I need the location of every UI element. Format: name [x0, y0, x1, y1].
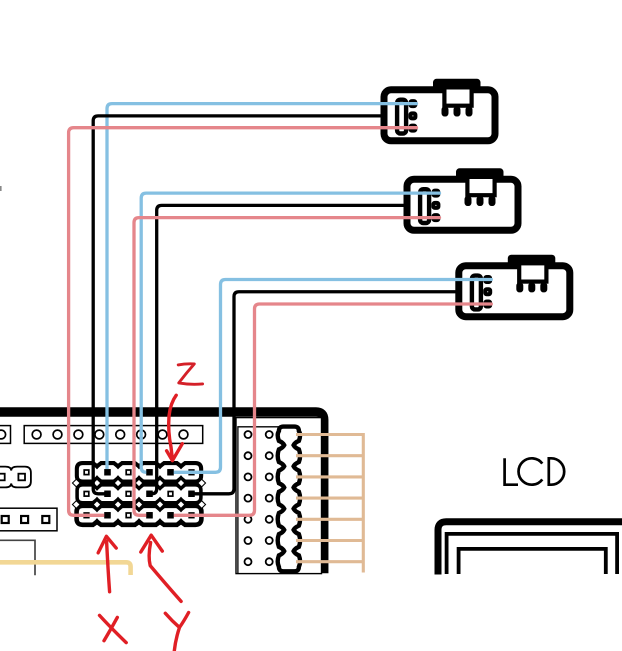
endstop pin header block rows	[77, 463, 201, 524]
annotation letter Y	[165, 613, 188, 651]
wire red SW1 to pin col2 row3	[69, 128, 417, 516]
gray wire outline	[0, 540, 35, 575]
wire end cap Y red end col4 row3	[146, 512, 152, 518]
annotation arrow Y	[141, 535, 181, 601]
wire end cap Z black end col6 row2	[188, 491, 194, 497]
tan wire 5 to LCD bus	[296, 518, 363, 521]
annotation letter Z	[178, 364, 202, 385]
endstop switch SW2 (Y)	[407, 168, 518, 230]
LCD inner frame	[459, 549, 606, 574]
wire black SW3 to pin col6 row2	[192, 292, 460, 494]
header socket strip A	[0, 426, 11, 444]
wire end cap X blue end col2 row1	[104, 469, 110, 475]
tan jumper wires to LCD	[296, 435, 363, 562]
wire end cap Y black end col4 row2	[146, 491, 152, 497]
wire red SW3 to pin col5 row3	[171, 304, 492, 515]
endstop header row 1 (signal)	[77, 463, 201, 481]
resistor network RN1 bead column	[278, 427, 300, 572]
wire blue SW1 to pin col2 row1	[107, 104, 417, 473]
perfboard copper area outline	[238, 427, 281, 574]
tan wire 7 to LCD bus	[296, 560, 363, 563]
stray mark at left edge	[0, 186, 2, 191]
tan wire 6 to LCD bus	[296, 539, 363, 542]
wire black SW1 to pin col2 row2	[93, 116, 384, 494]
wire red SW2 to pin col4 row3	[134, 218, 440, 516]
perfboard outline	[236, 418, 322, 574]
perfboard holes column A	[245, 431, 252, 565]
endstop header row 2 (ground)	[77, 485, 201, 503]
wire end cap X red end col2 row3	[104, 512, 110, 518]
wire black SW2 to pin col4 row2	[150, 205, 408, 493]
tan wire 3 to LCD bus	[296, 475, 363, 478]
wire end cap Z red end col5 row3	[167, 512, 173, 518]
tan wire 4 to LCD bus	[296, 497, 363, 500]
tan bus vertical	[362, 433, 365, 573]
header socket strip B	[24, 426, 203, 444]
endstop switch SW3 (Z)	[459, 255, 570, 317]
wire end cap X black end col2 row2	[104, 491, 110, 497]
endstop switch SW1 (X)	[384, 79, 495, 141]
board top edge and right edge	[0, 412, 324, 573]
LCD label	[505, 458, 565, 484]
pin header block outer border accent	[77, 463, 201, 481]
endstop header row 3 (vcc)	[77, 506, 201, 524]
annotation arrow Z	[167, 395, 183, 460]
pin block junction diamonds	[72, 478, 207, 509]
LCD middle frame	[447, 534, 617, 574]
wire blue SW3 to pin col5 row1	[171, 280, 492, 473]
yellow wire	[0, 562, 131, 575]
tan wire 2 to LCD bus	[296, 454, 363, 457]
wire end cap Z blue end col5 row1	[167, 469, 173, 475]
wire end caps on connected pins	[104, 469, 194, 518]
wire end cap Y blue end col4 row1	[146, 469, 152, 475]
perfboard holes column B	[266, 431, 273, 565]
LCD outer frame	[438, 522, 622, 575]
annotation arrow X	[98, 536, 116, 592]
annotation letter X	[100, 615, 127, 642]
2-pin jumper header	[0, 467, 31, 488]
tan wire 1 to LCD bus	[296, 433, 363, 436]
wire blue SW2 to pin col4 row1	[141, 193, 439, 472]
3-pin header J1	[0, 508, 57, 531]
